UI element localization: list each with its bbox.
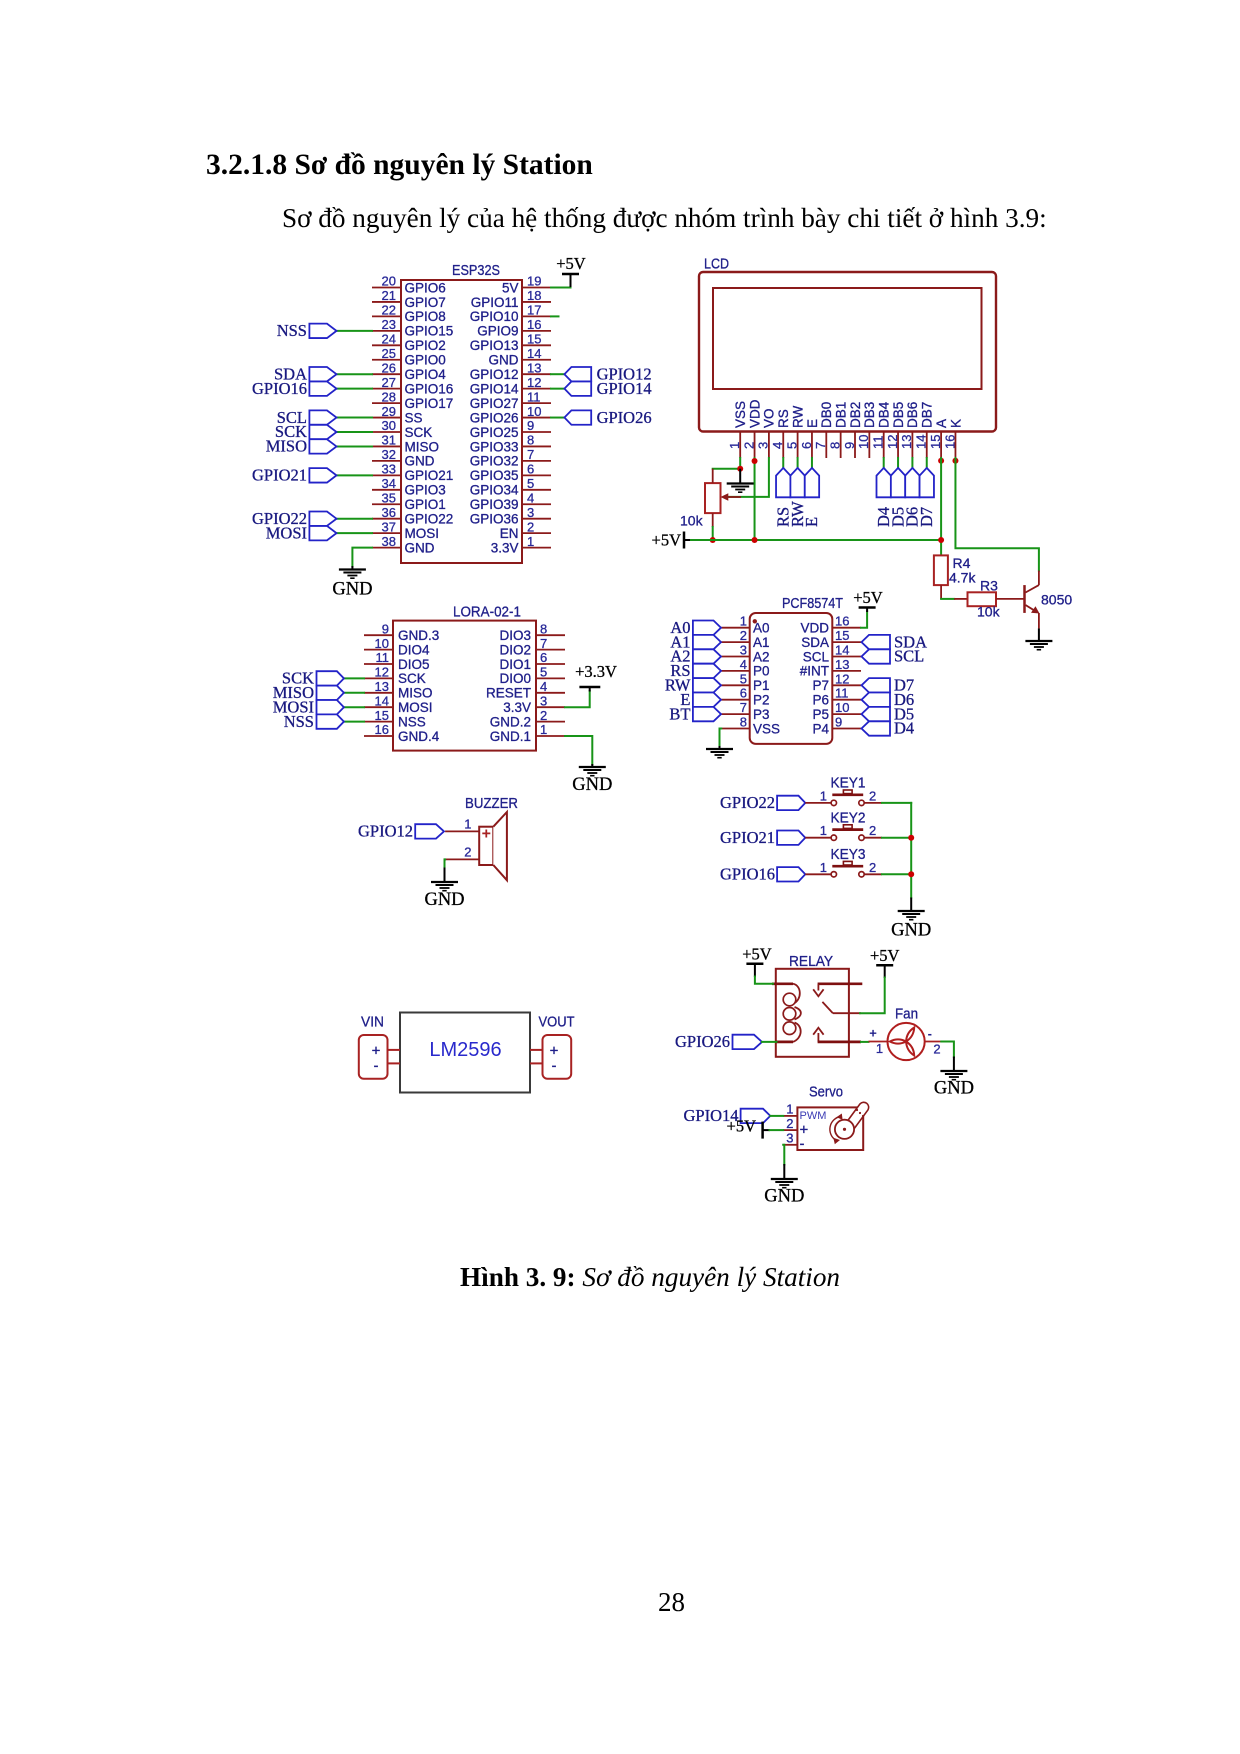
net flag GPIO21 at KEY2: [720, 828, 805, 847]
wire net GPIO26 from ESP32: [551, 417, 564, 419]
svg-text:GPIO14: GPIO14: [470, 381, 519, 396]
ESP32 module U1 ESP32S: [372, 262, 551, 563]
wire +5V to servo pin2: [770, 1129, 784, 1131]
svg-text:9: 9: [835, 715, 842, 730]
svg-text:6: 6: [540, 650, 547, 665]
svg-text:GND.3: GND.3: [398, 628, 439, 643]
svg-text:GPIO12: GPIO12: [470, 367, 519, 382]
svg-text:8: 8: [740, 715, 747, 730]
svg-text:3: 3: [540, 693, 547, 708]
svg-text:P0: P0: [753, 664, 770, 679]
svg-text:GPIO14: GPIO14: [597, 379, 652, 398]
svg-text:13: 13: [527, 360, 541, 375]
svg-text:1: 1: [740, 614, 747, 629]
wire +5V to relay coil top: [755, 977, 773, 984]
svg-text:3: 3: [527, 505, 534, 520]
wire LCD pin12 to flag D5: [897, 458, 899, 468]
svg-text:+: +: [482, 826, 491, 843]
svg-text:30: 30: [382, 418, 396, 433]
net flag GPIO21: [252, 466, 337, 485]
potentiometer RV1 10k: [680, 469, 741, 529]
svg-text:1: 1: [820, 788, 827, 803]
power +5V rail left of LCD: [652, 531, 691, 550]
wire +5V to relay switch output: [860, 978, 885, 1014]
wire net MISO to LORA: [344, 692, 364, 694]
svg-text:Fan: Fan: [895, 1005, 918, 1022]
svg-text:GPIO11: GPIO11: [471, 295, 519, 310]
svg-text:DB4: DB4: [877, 401, 892, 428]
svg-text:RW: RW: [790, 405, 805, 428]
resistor R4 4.7k: [934, 555, 977, 599]
svg-text:VSS: VSS: [733, 401, 748, 428]
svg-text:+5V: +5V: [727, 1117, 757, 1136]
svg-text:GND: GND: [891, 921, 931, 941]
svg-text:D7: D7: [917, 507, 936, 527]
svg-text:3: 3: [786, 1131, 793, 1146]
svg-text:SCK: SCK: [405, 425, 433, 440]
svg-text:11: 11: [835, 686, 849, 701]
svg-text:DB0: DB0: [819, 402, 834, 428]
svg-text:LCD: LCD: [704, 256, 729, 273]
svg-text:2: 2: [933, 1042, 940, 1057]
svg-text:GPIO22: GPIO22: [720, 793, 775, 812]
relay K1: [772, 953, 862, 1057]
svg-text:1: 1: [527, 534, 534, 549]
net flag MISO: [266, 437, 337, 456]
svg-text:2: 2: [540, 708, 547, 723]
I/O expander U3 PCF8574T: [721, 595, 861, 744]
svg-text:GPIO17: GPIO17: [405, 396, 454, 411]
net flag RS below LCD: [773, 468, 792, 527]
svg-text:7: 7: [540, 636, 547, 651]
junction at LCD pin2: [752, 458, 758, 464]
svg-text:4.7k: 4.7k: [949, 570, 976, 586]
svg-text:5: 5: [740, 671, 747, 686]
svg-text:GND.4: GND.4: [398, 729, 440, 744]
svg-text:19: 19: [527, 274, 541, 289]
svg-text:1: 1: [820, 860, 827, 875]
svg-text:34: 34: [382, 476, 396, 491]
svg-text:RELAY: RELAY: [789, 953, 833, 970]
svg-text:#INT: #INT: [800, 664, 829, 679]
svg-text:1: 1: [876, 1041, 883, 1056]
wire key GND trunk: [910, 803, 912, 898]
svg-text:GPIO13: GPIO13: [470, 338, 519, 353]
power module LM2596: [361, 1013, 575, 1093]
svg-text:4: 4: [740, 657, 747, 672]
fan motor M1: [869, 1005, 942, 1060]
net flag D4 at PCF8574T: [862, 719, 915, 738]
svg-text:MISO: MISO: [398, 686, 433, 701]
ground at transistor emitter: [1025, 628, 1052, 649]
svg-text:P7: P7: [812, 678, 829, 693]
svg-text:GPIO3: GPIO3: [405, 483, 446, 498]
net flag GPIO12: [564, 364, 651, 383]
svg-text:1: 1: [540, 722, 547, 737]
svg-text:14: 14: [835, 643, 849, 658]
svg-text:PWM: PWM: [800, 1110, 827, 1122]
net flag D6 below LCD: [903, 468, 922, 527]
svg-text:8050: 8050: [1041, 592, 1072, 608]
net flag MOSI: [273, 697, 344, 716]
wire servo pin3 to ground: [783, 1145, 784, 1165]
junction KEY3 on trunk: [908, 871, 914, 877]
svg-text:NSS: NSS: [398, 714, 426, 729]
svg-text:MISO: MISO: [405, 439, 440, 454]
net flag GPIO22 at KEY1: [720, 793, 805, 812]
svg-text:35: 35: [382, 490, 396, 505]
svg-text:A1: A1: [753, 635, 770, 650]
svg-text:26: 26: [382, 360, 396, 375]
servo motor SG1: [783, 1084, 868, 1153]
svg-text:5V: 5V: [502, 280, 519, 295]
net flag NSS: [277, 321, 337, 340]
svg-text:38: 38: [382, 534, 396, 549]
ground at buzzer: [424, 868, 464, 911]
net flag A2 at PCF8574T pin 3: [670, 647, 721, 666]
net flag E below LCD: [802, 468, 821, 527]
LCD display module LCD1: [699, 256, 996, 459]
svg-text:DB5: DB5: [891, 402, 906, 428]
wire net GPIO14 from ESP32: [551, 388, 564, 390]
svg-text:SDA: SDA: [801, 635, 829, 650]
svg-text:DIO0: DIO0: [499, 671, 531, 686]
net flag GPIO12 at buzzer: [358, 822, 444, 841]
svg-text:10k: 10k: [977, 604, 1001, 620]
svg-text:P6: P6: [812, 693, 829, 708]
svg-text:GND: GND: [424, 890, 464, 910]
svg-text:P4: P4: [812, 721, 829, 736]
svg-text:GPIO16: GPIO16: [252, 379, 307, 398]
svg-text:GPIO2: GPIO2: [405, 338, 446, 353]
svg-text:2: 2: [527, 519, 534, 534]
net flag MOSI: [266, 523, 337, 542]
svg-text:RESET: RESET: [486, 686, 531, 701]
svg-text:15: 15: [375, 708, 389, 723]
wire fan to ground: [941, 1042, 954, 1058]
svg-text:GND: GND: [332, 580, 372, 600]
svg-text:P2: P2: [753, 693, 770, 708]
wire LCD pin5 to flag RW: [797, 458, 799, 468]
wire LCD pin14 to flag D7: [926, 458, 928, 468]
junction at LCD pin1: [737, 466, 743, 472]
wire net SCK to ESP32 pin 30: [337, 431, 373, 433]
wire GPIO26 to relay coil bottom: [762, 1041, 777, 1043]
net flag RW at PCF8574T pin 5: [665, 676, 721, 695]
net flag D5 at PCF8574T: [862, 704, 915, 723]
wire KEY1 pin2 to GND trunk: [882, 802, 911, 804]
svg-text:1: 1: [786, 1102, 793, 1117]
svg-text:18: 18: [527, 288, 541, 303]
svg-text:MISO: MISO: [266, 437, 307, 456]
svg-text:7: 7: [527, 447, 534, 462]
svg-text:24: 24: [382, 332, 396, 347]
svg-text:GPIO25: GPIO25: [470, 425, 519, 440]
wire ESP32 pin38 to GND: [352, 548, 372, 567]
wire net SCL to ESP32 pin 29: [337, 417, 373, 419]
wire net NSS to LORA: [344, 721, 364, 723]
svg-text:DB7: DB7: [920, 402, 935, 428]
svg-text:-: -: [800, 1136, 805, 1153]
ground at LCD pin1: [727, 469, 754, 493]
net flag SCK: [275, 422, 337, 441]
svg-text:GPIO26: GPIO26: [470, 410, 519, 425]
svg-text:GPIO0: GPIO0: [405, 353, 446, 368]
net flag A1 at PCF8574T pin 2: [670, 632, 721, 651]
wire net SDA to ESP32 pin 26: [337, 373, 373, 375]
net flag D4 below LCD: [874, 468, 893, 527]
svg-text:E: E: [805, 419, 820, 428]
wire pot bottom to +5V rail: [712, 527, 714, 540]
push button KEY1: [805, 775, 882, 806]
svg-text:GPIO16: GPIO16: [405, 381, 454, 396]
svg-text:13: 13: [835, 657, 849, 672]
svg-text:VO: VO: [762, 408, 777, 428]
svg-text:+5V: +5V: [556, 254, 586, 273]
svg-text:LM2596: LM2596: [429, 1039, 501, 1061]
wire KEY3 pin2 to GND trunk: [882, 873, 911, 875]
wire VO net LCD pin3 to potentiometer wiper: [728, 458, 769, 497]
net flag MISO: [273, 683, 344, 702]
svg-text:+5V: +5V: [853, 588, 883, 607]
svg-text:33: 33: [382, 462, 396, 477]
svg-text:13: 13: [375, 679, 389, 694]
svg-text:3.3V: 3.3V: [503, 700, 531, 715]
svg-text:27: 27: [382, 375, 396, 390]
wire buzzer pin2 to ground: [444, 859, 447, 868]
svg-text:MOSI: MOSI: [398, 700, 433, 715]
svg-text:31: 31: [382, 433, 396, 448]
svg-text:3.3V: 3.3V: [491, 540, 519, 555]
svg-text:3: 3: [740, 643, 747, 658]
svg-text:+5V: +5V: [742, 945, 772, 964]
wire net MOSI to LORA: [344, 706, 364, 708]
svg-text:12: 12: [835, 671, 849, 686]
svg-text:VDD: VDD: [747, 399, 762, 428]
svg-text:NSS: NSS: [277, 321, 307, 340]
svg-text:11: 11: [376, 650, 390, 665]
wire net NSS to ESP32 pin 23: [337, 330, 373, 332]
net flag NSS: [284, 712, 344, 731]
svg-text:GPIO21: GPIO21: [405, 468, 454, 483]
junction KEY2 on trunk: [908, 835, 914, 841]
svg-text:GND.2: GND.2: [490, 714, 531, 729]
svg-text:2: 2: [869, 788, 876, 803]
wire ESP32 pin19 to +5V: [551, 275, 571, 288]
wire GPIO14 to servo pin1: [770, 1115, 783, 1117]
net flag SCK: [282, 669, 344, 688]
svg-text:VDD: VDD: [800, 621, 829, 636]
svg-text:25: 25: [382, 346, 396, 361]
net flag SCL: [277, 408, 337, 427]
svg-text:GPIO33: GPIO33: [470, 439, 519, 454]
svg-text:15: 15: [527, 332, 541, 347]
net flag SCL at PCF8574T: [862, 647, 925, 666]
svg-text:1: 1: [464, 817, 471, 832]
buzzer LS1: [445, 795, 518, 880]
wire LCD pin6 to flag E: [811, 458, 813, 468]
svg-text:KEY2: KEY2: [831, 810, 866, 827]
svg-text:2: 2: [869, 823, 876, 838]
ground at servo: [764, 1164, 804, 1207]
svg-text:+5V: +5V: [870, 946, 900, 965]
power +5V at PCF pin16: [853, 588, 883, 612]
svg-text:GND: GND: [934, 1079, 974, 1099]
svg-text:23: 23: [382, 317, 396, 332]
wire PCF pin8 VSS to ground: [720, 729, 722, 747]
svg-text:PCF8574T: PCF8574T: [782, 595, 843, 612]
wire VDD net from LCD pin2 to +5V rail: [754, 458, 756, 540]
svg-text:MOSI: MOSI: [266, 523, 307, 542]
svg-text:GPIO39: GPIO39: [470, 497, 519, 512]
ground at key trunk: [891, 898, 931, 941]
svg-text:DB3: DB3: [862, 402, 877, 428]
svg-text:RS: RS: [776, 409, 791, 428]
svg-text:DIO5: DIO5: [398, 657, 430, 672]
svg-text:37: 37: [382, 519, 396, 534]
wire relay output to fan: [861, 1041, 869, 1043]
svg-text:R3: R3: [980, 578, 998, 594]
svg-text:GPIO8: GPIO8: [405, 309, 446, 324]
svg-text:6: 6: [527, 462, 534, 477]
svg-text:22: 22: [382, 303, 396, 318]
svg-text:VSS: VSS: [753, 721, 780, 736]
junction rail at VDD: [752, 537, 758, 543]
ground GND at LORA pin1: [572, 764, 612, 795]
svg-text:2: 2: [464, 845, 471, 860]
connector VOUT: [530, 1035, 571, 1079]
svg-text:A0: A0: [753, 621, 770, 636]
svg-text:A2: A2: [753, 649, 770, 664]
svg-text:EN: EN: [500, 526, 519, 541]
junction pot bottom on rail: [710, 537, 716, 543]
wire LCD pin11 to flag D4: [883, 458, 885, 468]
svg-text:12: 12: [375, 665, 389, 680]
power +5V at servo pin2: [727, 1117, 770, 1139]
svg-text:DIO4: DIO4: [398, 642, 430, 657]
svg-text:14: 14: [527, 346, 541, 361]
svg-text:1: 1: [820, 823, 827, 838]
svg-text:Servo: Servo: [809, 1084, 843, 1101]
net flag BT at PCF8574T pin 7: [669, 704, 721, 723]
svg-text:DIO1: DIO1: [499, 657, 531, 672]
net flag D6 at PCF8574T: [862, 690, 915, 709]
LoRa module U2 LORA-02-1: [364, 604, 565, 751]
svg-text:SCL: SCL: [894, 647, 924, 666]
svg-text:16: 16: [835, 614, 849, 629]
svg-text:E: E: [802, 517, 821, 527]
svg-text:+5V: +5V: [652, 531, 682, 550]
svg-text:GPIO21: GPIO21: [252, 466, 307, 485]
push button KEY3: [805, 846, 882, 877]
svg-text:11: 11: [527, 389, 541, 404]
net flag GPIO16: [252, 379, 337, 398]
svg-text:GND: GND: [405, 454, 435, 469]
svg-text:MOSI: MOSI: [405, 526, 440, 541]
svg-text:VIN: VIN: [361, 1014, 384, 1031]
svg-text:BT: BT: [669, 704, 690, 723]
svg-text:16: 16: [527, 317, 541, 332]
net flag RW below LCD: [788, 468, 807, 527]
wire KEY2 pin2 to GND trunk: [882, 837, 911, 839]
power +5V at relay switch: [870, 946, 900, 978]
svg-text:GPIO26: GPIO26: [675, 1032, 730, 1051]
svg-text:GPIO7: GPIO7: [405, 295, 446, 310]
net flag A0 at PCF8574T pin 1: [670, 618, 721, 637]
push button KEY2: [805, 810, 882, 841]
svg-text:GPIO4: GPIO4: [405, 367, 447, 382]
wire +5V rail: [691, 539, 941, 541]
svg-text:16: 16: [375, 722, 389, 737]
svg-text:P1: P1: [753, 678, 770, 693]
svg-text:SS: SS: [405, 410, 423, 425]
net flag GPIO26: [564, 408, 651, 427]
connector VIN: [359, 1035, 400, 1079]
svg-text:GND.1: GND.1: [490, 729, 531, 744]
svg-text:10: 10: [835, 700, 849, 715]
svg-text:10k: 10k: [680, 513, 704, 529]
svg-text:GPIO22: GPIO22: [405, 512, 454, 527]
svg-text:GPIO26: GPIO26: [597, 408, 652, 427]
net flag GPIO16 at KEY3: [720, 865, 805, 884]
svg-text:LORA-02-1: LORA-02-1: [453, 604, 521, 621]
svg-text:17: 17: [527, 303, 541, 318]
junction rail at R4: [938, 537, 944, 543]
net flag SDA at PCF8574T: [862, 632, 928, 651]
svg-text:10: 10: [375, 636, 389, 651]
svg-text:DIO2: DIO2: [499, 642, 531, 657]
svg-text:32: 32: [382, 447, 396, 462]
resistor R3 10k: [954, 578, 1024, 620]
wire net GPIO12 from ESP32: [551, 373, 564, 375]
svg-text:8: 8: [527, 433, 534, 448]
svg-text:KEY1: KEY1: [831, 775, 866, 792]
net flag SDA: [274, 364, 337, 383]
svg-text:28: 28: [382, 389, 396, 404]
svg-text:2: 2: [740, 628, 747, 643]
ground at PCF pin8: [706, 746, 733, 758]
wire LCD pin16 K to transistor collector: [955, 458, 1038, 571]
svg-text:GPIO10: GPIO10: [470, 309, 519, 324]
svg-text:GND: GND: [405, 540, 435, 555]
svg-text:-: -: [374, 1058, 379, 1075]
svg-text:DB1: DB1: [833, 402, 848, 428]
svg-text:GPIO9: GPIO9: [477, 324, 518, 339]
svg-text:2: 2: [869, 860, 876, 875]
svg-text:GPIO16: GPIO16: [720, 865, 775, 884]
ground GND at ESP32 pin38: [332, 566, 372, 600]
svg-text:GPIO21: GPIO21: [720, 828, 775, 847]
svg-text:4: 4: [540, 679, 547, 694]
svg-text:BUZZER: BUZZER: [465, 795, 518, 812]
svg-text:20: 20: [382, 274, 396, 289]
svg-text:GPIO27: GPIO27: [470, 396, 519, 411]
junction at LCD pin15 A: [938, 458, 944, 464]
wire pot top to LCD pin1: [713, 468, 741, 470]
svg-text:29: 29: [382, 404, 396, 419]
wire R4 to R3: [941, 598, 954, 600]
svg-text:GPIO1: GPIO1: [405, 497, 446, 512]
svg-text:-: -: [552, 1058, 557, 1075]
svg-text:2: 2: [786, 1116, 793, 1131]
power +5V at ESP32 pin19: [556, 254, 586, 287]
svg-text:GND: GND: [572, 775, 612, 795]
svg-text:5: 5: [540, 665, 547, 680]
svg-text:GPIO15: GPIO15: [405, 324, 454, 339]
svg-text:D4: D4: [894, 719, 914, 738]
svg-text:SCK: SCK: [398, 671, 426, 686]
net flag GPIO14 at servo: [683, 1106, 770, 1125]
